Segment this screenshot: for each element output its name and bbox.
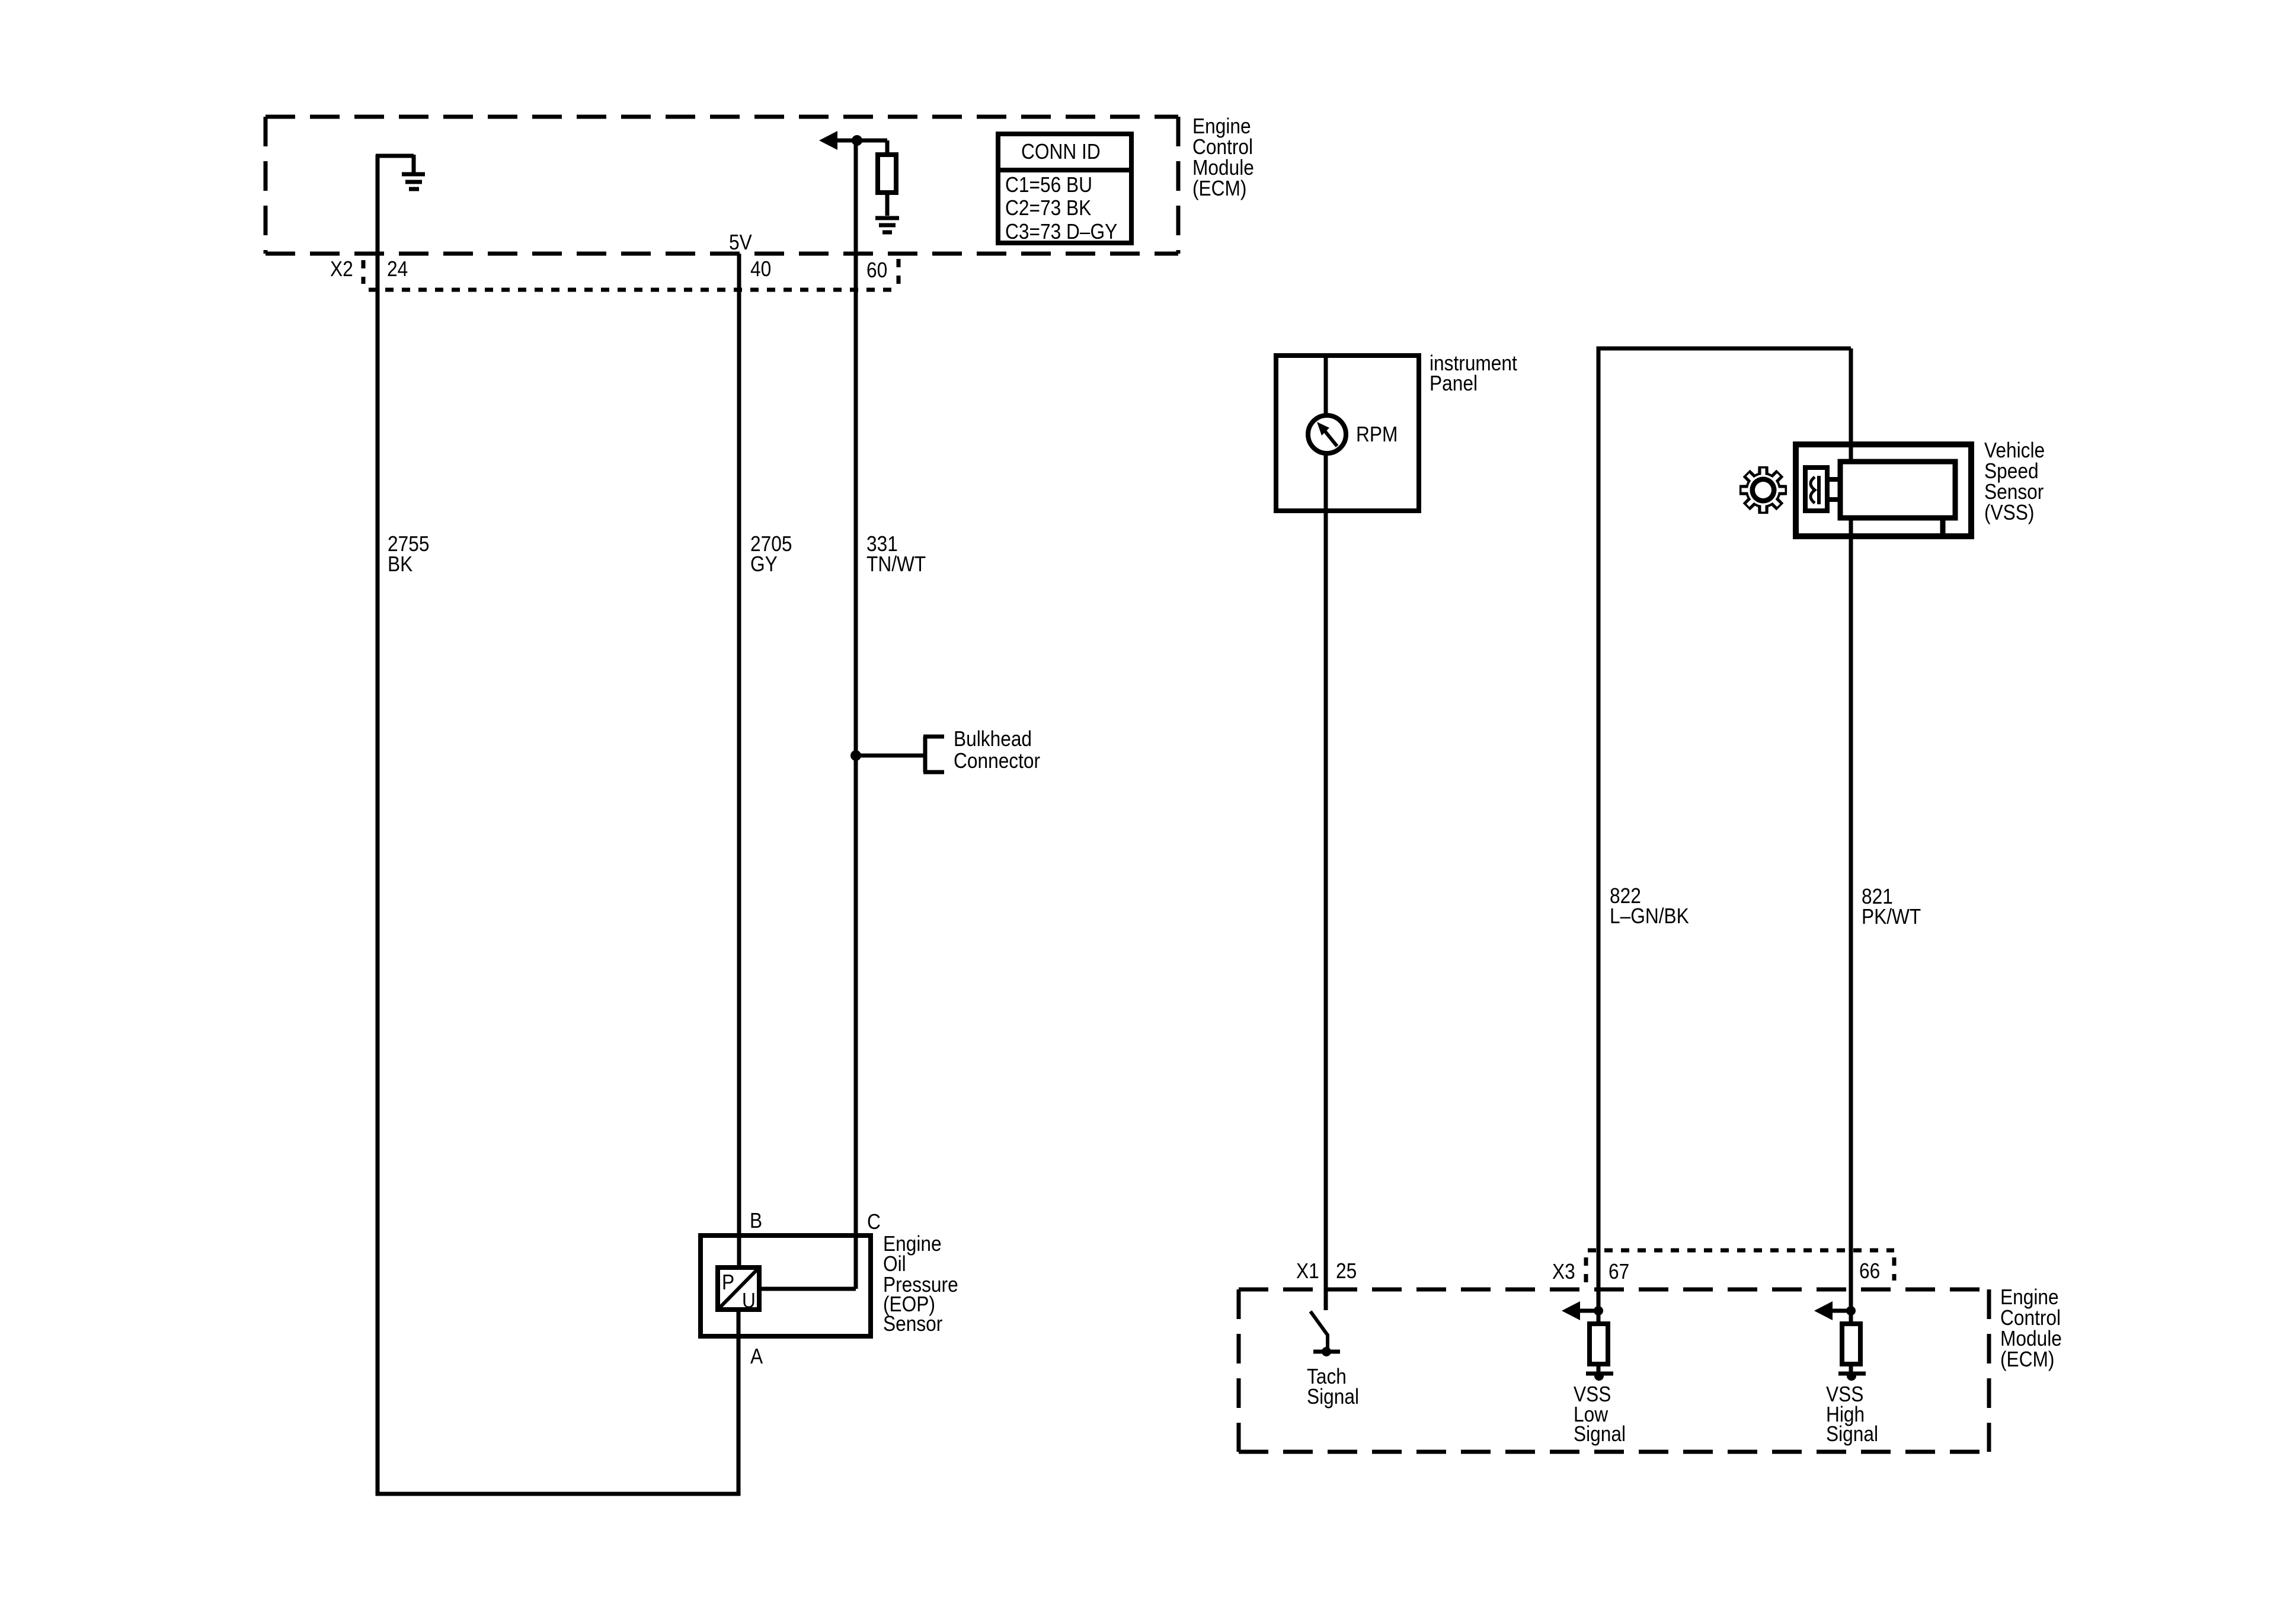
svg-text:25: 25 [1336, 1259, 1357, 1283]
VSS outer box [1796, 444, 1971, 536]
svg-text:Signal: Signal [1574, 1422, 1626, 1446]
wire 2705 GY: pin 40 (5V) down to EOP pin B [737, 254, 741, 1267]
CONN ID table box [998, 134, 1131, 243]
svg-text:Connector: Connector [954, 749, 1040, 773]
svg-text:GY: GY [750, 552, 778, 576]
pin 67 node dot [1594, 1306, 1603, 1315]
svg-text:C1=56 BU: C1=56 BU [1005, 173, 1092, 197]
svg-text:L–GN/BK: L–GN/BK [1610, 904, 1689, 928]
svg-text:U: U [742, 1289, 756, 1313]
label Bulkhead Connector [954, 727, 1040, 773]
tach signal switch blade [1310, 1311, 1328, 1349]
instrument panel box [1276, 356, 1419, 511]
VSS pickup bar [1817, 476, 1821, 504]
pin 66 arrow wire [1831, 1309, 1851, 1313]
VSS low termination dot [1594, 1371, 1604, 1381]
svg-text:C: C [867, 1210, 881, 1234]
svg-text:C2=73 BK: C2=73 BK [1005, 196, 1092, 220]
pin 67 arrow [1562, 1301, 1580, 1320]
wire from arrow to node [836, 139, 857, 143]
resistor inside ECM [878, 155, 896, 193]
RPM gauge needle [1325, 431, 1337, 446]
X3 connector dotted line [1588, 1249, 1894, 1253]
wire label 822 L-GN/BK [1610, 884, 1689, 928]
wire 2755 BK: pin 24 loop from ECM ground down and around to EOP pin A [378, 155, 738, 1494]
svg-text:X1: X1 [1296, 1259, 1319, 1283]
wire label 2755 BK [388, 532, 429, 576]
X3 dotted tick left [1584, 1257, 1588, 1283]
svg-text:C3=73 D–GY: C3=73 D–GY [1005, 220, 1117, 244]
svg-text:Signal: Signal [1307, 1385, 1359, 1409]
wire resistor to ground [885, 193, 890, 216]
svg-text:X3: X3 [1552, 1260, 1575, 1283]
VSS high resistor lower wire [1849, 1364, 1853, 1372]
EOP internal wire C to transducer [759, 1287, 856, 1291]
ground symbol under internal resistor [875, 218, 899, 232]
wire label 331 TN/WT [866, 532, 926, 576]
VSS sensor body [1840, 462, 1955, 518]
node on 5V reference net (pin 60) [852, 135, 862, 146]
VSS gear [1739, 466, 1787, 514]
EOP sensor box [701, 1235, 871, 1336]
wire from node to internal resistor [856, 140, 887, 155]
svg-text:P: P [722, 1270, 734, 1294]
VSS connector stubs [1827, 479, 1840, 500]
svg-text:66: 66 [1859, 1259, 1880, 1283]
pin 66 node dot [1846, 1306, 1856, 1315]
bulkhead connector bracket [923, 737, 944, 772]
ECM top dashed box (Engine Control Module) [266, 117, 1178, 254]
tach wire lower segment to ECM pin 25 [1324, 453, 1328, 1310]
svg-text:TN/WT: TN/WT [866, 552, 926, 576]
svg-text:24: 24 [387, 257, 408, 281]
tach wire upper segment [1324, 356, 1328, 417]
arrow to measurement point (pin 60 net) [819, 131, 837, 150]
label VSS Low Signal [1574, 1382, 1626, 1446]
label instrument Panel [1430, 351, 1517, 395]
VSS low termination bar [1586, 1372, 1613, 1376]
svg-text:Signal: Signal [1826, 1422, 1878, 1446]
wire 822 L-GN/BK loop up and over [1598, 348, 1851, 1324]
wire label 821 PK/WT [1862, 885, 1921, 929]
wire to bulkhead connector [856, 754, 925, 758]
X2 connector row: dotted line [369, 288, 897, 292]
label Engine Control Module (ECM) bottom [2000, 1285, 2062, 1371]
tach switch contact bar [1313, 1350, 1340, 1354]
tach switch contact dot [1322, 1347, 1331, 1356]
svg-text:60: 60 [866, 258, 887, 282]
bulkhead connector junction dot [850, 750, 861, 761]
svg-text:A: A [750, 1345, 763, 1368]
svg-text:67: 67 [1609, 1260, 1629, 1283]
svg-text:Bulkhead: Bulkhead [954, 727, 1032, 751]
P/U transducer square [718, 1267, 759, 1310]
X3 dotted tick right [1892, 1257, 1897, 1281]
svg-text:Sensor: Sensor [883, 1312, 942, 1336]
svg-text:CONN ID: CONN ID [1021, 140, 1101, 164]
VSS low resistor lower wire [1597, 1364, 1601, 1372]
svg-text:RPM: RPM [1356, 422, 1398, 446]
wire label 2705 GY [750, 532, 792, 576]
P/U diagonal [720, 1269, 757, 1308]
svg-text:(ECM): (ECM) [2000, 1347, 2054, 1371]
svg-text:Panel: Panel [1430, 372, 1478, 395]
pin 67 arrow wire [1578, 1309, 1598, 1313]
VSS pickup curl [1811, 477, 1815, 503]
VSS high termination dot [1847, 1371, 1856, 1381]
VSS body step [1940, 518, 1946, 536]
svg-text:5V: 5V [729, 231, 752, 254]
label Tach Signal [1307, 1365, 1359, 1409]
X2 dotted tick right [897, 259, 901, 285]
wire 331 TN/WT: pin 60 down to EOP pin C [854, 140, 858, 1289]
wire 821 PK/WT down through VSS [1849, 348, 1853, 1324]
svg-text:(ECM): (ECM) [1192, 177, 1246, 200]
X2 dotted tick left [362, 260, 366, 284]
ground symbol inside ECM (pin 24 net) [376, 155, 425, 189]
ECM bottom dashed box [1239, 1289, 1989, 1452]
label Engine Oil Pressure (EOP) Sensor [883, 1232, 958, 1336]
VSS low resistor [1590, 1324, 1608, 1364]
label Engine Control Module (ECM) top [1192, 114, 1254, 200]
RPM gauge circle [1308, 415, 1346, 453]
svg-text:(VSS): (VSS) [1984, 501, 2034, 524]
VSS high resistor [1842, 1324, 1860, 1364]
VSS connector box [1805, 468, 1827, 511]
svg-text:B: B [750, 1209, 762, 1233]
pin 66 arrow [1814, 1301, 1833, 1320]
label VSS High Signal [1826, 1382, 1878, 1446]
svg-text:X2: X2 [330, 257, 353, 281]
svg-text:PK/WT: PK/WT [1862, 905, 1921, 929]
svg-text:40: 40 [750, 257, 771, 281]
label Vehicle Speed Sensor (VSS) [1984, 438, 2045, 524]
svg-text:BK: BK [388, 552, 413, 576]
RPM gauge needle arrowhead [1317, 422, 1329, 436]
CONN ID table header divider [998, 168, 1131, 172]
VSS high termination bar [1838, 1372, 1866, 1376]
